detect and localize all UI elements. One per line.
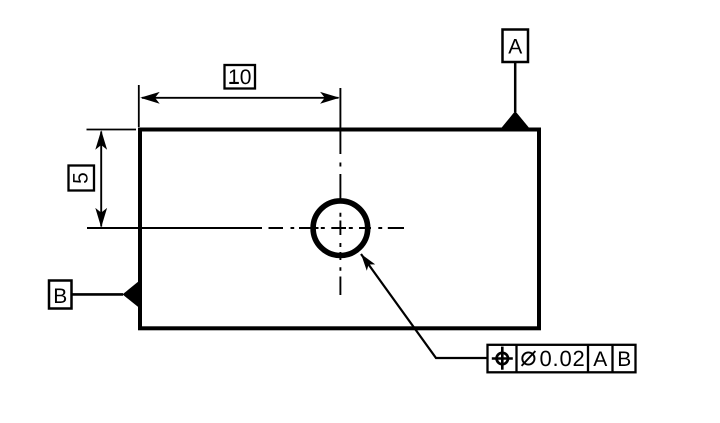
svg-text:10: 10 — [228, 66, 251, 89]
FCF divider 2 — [587, 345, 589, 373]
dimension 10 extension line (left) — [138, 85, 140, 127]
foot of digit 1 — [229, 82, 239, 84]
datum B leader — [72, 293, 124, 296]
dimension 5 extension line (top) — [87, 129, 137, 131]
svg-text:0.02: 0.02 — [540, 346, 586, 371]
datum A triangle — [502, 111, 530, 128]
svg-text:A: A — [593, 348, 607, 371]
dimension 5 bottom arrowhead — [95, 208, 107, 228]
datum A leader — [514, 62, 517, 112]
basic dimension box 5 — [69, 166, 95, 191]
svg-text:A: A — [508, 36, 522, 59]
feature control frame outer box — [488, 345, 636, 373]
diameter symbol — [522, 352, 534, 364]
position symbol (circle + crosshair) — [497, 353, 508, 364]
FCF divider 1 — [515, 345, 517, 373]
dimension 10 dimension line — [142, 97, 339, 99]
leader line from hole to FCF — [361, 254, 488, 358]
dimension 5 top arrowhead — [95, 130, 107, 150]
datum A symbol box — [503, 30, 529, 63]
dimension 10 right arrowhead — [320, 92, 340, 104]
basic dimension box 10 — [225, 65, 256, 89]
svg-text:B: B — [53, 285, 67, 308]
horizontal centerline of hole — [87, 227, 404, 229]
datum B symbol box — [49, 281, 72, 309]
svg-text:5: 5 — [70, 172, 93, 184]
vertical centerline of hole — [339, 88, 341, 295]
dimension 10 left arrowhead — [140, 92, 160, 104]
part outline rectangle — [140, 130, 539, 329]
leader arrowhead at hole — [361, 254, 375, 271]
svg-text:B: B — [617, 348, 631, 371]
dimension 5 dimension line — [100, 132, 102, 227]
hole circle — [313, 201, 368, 256]
datum B triangle — [123, 281, 140, 308]
FCF divider 3 — [611, 345, 613, 373]
